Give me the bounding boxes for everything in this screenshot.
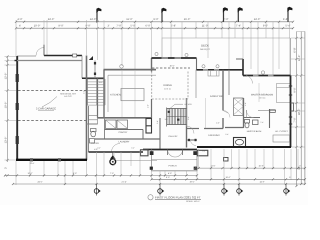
svg-text:4'-0": 4'-0" <box>168 172 172 175</box>
svg-text:PANTRY: PANTRY <box>119 131 128 134</box>
svg-text:9'-0": 9'-0" <box>263 25 268 28</box>
laundry machines <box>106 120 128 129</box>
powder fixtures: toilet and sink <box>90 129 97 144</box>
wall: y127.5 x225-243.5 <box>225 127 244 129</box>
svg-text:9'-0": 9'-0" <box>73 172 77 175</box>
interior grid extension lines through kitchen <box>122 70 135 117</box>
door arc: top-left entry door <box>17 45 44 57</box>
svg-text:FIRST FLOOR PLAN 2281 SQ FT: FIRST FLOOR PLAN 2281 SQ FT <box>155 195 201 199</box>
interior extension x205.5 <box>205 98 207 128</box>
shower bottom-left of bath <box>234 138 246 148</box>
svg-text:21'-4": 21'-4" <box>121 181 126 184</box>
svg-text:MASTER BEDROOM: MASTER BEDROOM <box>251 94 273 97</box>
svg-text:6'-0": 6'-0" <box>131 147 135 150</box>
dashed line: garage bay divider 1 <box>18 90 86 92</box>
scattered interior micro-annotations <box>83 81 265 153</box>
svg-text:16'-0": 16'-0" <box>184 18 191 21</box>
wall: bottom y147 x197-291 (dark) <box>197 146 291 148</box>
wall: y128.5 x186.5-223 (gap at 199-204) <box>187 128 224 130</box>
bottom extension lines <box>16 32 305 186</box>
wall: x160 y118-148.8 <box>159 118 161 149</box>
section flag at x=162 <box>161 8 166 22</box>
foyer front wall dim text <box>94 148 98 151</box>
wall: garage right x86.5 <box>86 56 88 161</box>
svg-text:KITCHEN: KITCHEN <box>110 94 121 97</box>
wall: closet divider x269.5 y109-128 <box>269 109 271 128</box>
svg-text:7'-0": 7'-0" <box>294 117 297 122</box>
svg-text:MASTER BATH: MASTER BATH <box>247 130 262 133</box>
garage door jamb marks on bottom wall <box>30 158 61 161</box>
wall: stub y59 x236-243 <box>236 58 243 60</box>
foyer closet dark walls x146-151.5 <box>146 119 152 134</box>
door mark triangle near x90 <box>89 56 93 60</box>
svg-text:7'-0": 7'-0" <box>116 25 121 28</box>
svg-text:6'-8": 6'-8" <box>283 18 288 21</box>
stair newel dark dots <box>168 111 180 121</box>
svg-text:24'-0": 24'-0" <box>48 18 55 21</box>
door arc: deck to master <box>246 76 253 84</box>
svg-text:16'-0": 16'-0" <box>169 65 174 68</box>
porch french door arcs <box>168 150 183 158</box>
grid bubble at x=96.5 <box>94 184 101 196</box>
wall: bath niche top y117.5 x243.5-260 <box>244 117 261 119</box>
svg-text:7'-0": 7'-0" <box>110 172 114 175</box>
wall: right exterior x290.5 y38-147 (dark below 75) <box>290 38 292 147</box>
extension lines right <box>291 32 305 148</box>
label: FAMILY RM <box>210 95 223 98</box>
label: PORCH <box>169 164 177 167</box>
small step below right wall <box>224 158 229 162</box>
svg-text:11'-0": 11'-0" <box>202 25 208 28</box>
grid bubble at x=239 <box>237 184 244 196</box>
wall: main horizontal y117.8 x97-151 <box>98 117 152 119</box>
label: FOYER <box>91 142 99 145</box>
dimension text: top row A <box>17 18 288 21</box>
svg-text:14'-0": 14'-0" <box>254 18 261 21</box>
section flag at x=238.3 <box>238 7 243 22</box>
svg-text:3'-6": 3'-6" <box>83 90 86 94</box>
svg-text:5'-4": 5'-4" <box>285 25 290 28</box>
extension lines from top dims down to building <box>16 20 290 75</box>
svg-text:6'-0": 6'-0" <box>145 25 150 28</box>
dimension line: left vertical column <box>6 55 8 176</box>
mudroom partition x95 with jamb nubs <box>94 61 96 79</box>
svg-text:13 X 11: 13 X 11 <box>164 87 170 90</box>
interior extension x259 <box>258 83 260 102</box>
closet shelves <box>273 135 290 142</box>
bottom dim row y179.3 (right mid) <box>150 176 306 180</box>
stair leader note UP 16R <box>171 103 193 108</box>
svg-text:19'-0": 19'-0" <box>225 176 230 179</box>
wall: x196 y70-98 (light) <box>195 70 197 98</box>
garage bottom dim text <box>30 162 35 165</box>
label: LAUNDRY <box>119 141 130 144</box>
svg-text:10'-0": 10'-0" <box>4 102 7 109</box>
svg-text:14'-0": 14'-0" <box>90 18 97 21</box>
wall: kitchen top y69.6 x103.5-156 <box>104 69 157 71</box>
grid bubble at x=160 <box>158 184 165 196</box>
closet walls x229-243 <box>229 70 243 116</box>
svg-text:15 X 14: 15 X 14 <box>259 96 266 99</box>
wall: family left x186.5 y98-147 <box>186 98 188 148</box>
wall: garage bottom (very dark) y159.8 <box>16 159 87 161</box>
svg-text:33'-4": 33'-4" <box>30 162 35 165</box>
leader line from circle marker <box>116 159 157 161</box>
grid bubble at x=286 <box>284 184 291 196</box>
svg-text:W.I. CLOSET: W.I. CLOSET <box>275 130 288 133</box>
svg-text:9'-0": 9'-0" <box>58 25 63 28</box>
wall: master top y75.5 x243-291 (dark) <box>243 75 291 77</box>
closet shelves under stairs <box>89 116 98 125</box>
section flag at x=223.5 <box>223 7 228 22</box>
svg-text:DECK: DECK <box>201 44 209 48</box>
svg-text:7'-0": 7'-0" <box>223 18 228 21</box>
wall: kitchen left x104 <box>103 70 105 118</box>
svg-text:12'-0": 12'-0" <box>27 172 32 175</box>
svg-text:3 CAR GARAGE: 3 CAR GARAGE <box>36 107 56 110</box>
mudroom bottom wall y78.3 <box>82 77 104 79</box>
svg-text:5'-8": 5'-8" <box>171 25 176 28</box>
wall: top-left bumpout top (dark) x44-82 y55.5 <box>44 55 82 57</box>
svg-text:4'-0": 4'-0" <box>17 18 22 21</box>
right outermost dim line x304.9 <box>304 32 306 185</box>
dimension text: top row B <box>19 25 291 28</box>
wall: stair hall x97.5 <box>97 78 99 118</box>
svg-text:14'-0": 14'-0" <box>298 55 301 62</box>
svg-text:2'-8": 2'-8" <box>99 81 103 84</box>
svg-text:PORCH: PORCH <box>169 164 177 167</box>
svg-text:19'-0": 19'-0" <box>189 181 194 184</box>
fireplace on family top wall <box>208 71 219 77</box>
label: PANTRY <box>119 131 128 134</box>
dimension line: top row A <box>15 21 294 23</box>
bottom dim row left y175.4 <box>4 172 198 177</box>
wall: kitchen right x151.5 (segments) <box>151 58 153 118</box>
mudroom left wall x82 <box>81 56 83 79</box>
svg-text:9'-0": 9'-0" <box>85 25 90 28</box>
svg-text:18'-0": 18'-0" <box>298 109 301 116</box>
svg-text:LAUNDRY: LAUNDRY <box>119 141 130 144</box>
porch corner posts <box>150 151 197 170</box>
wall: y110.5 x258-276 <box>258 110 276 112</box>
wall: garage left (dark) x17 <box>16 56 18 161</box>
door arc: into master bath hall <box>246 110 253 118</box>
svg-text:15'-8": 15'-8" <box>258 165 263 168</box>
svg-text:7'-0": 7'-0" <box>260 121 264 124</box>
extension lines left <box>5 57 17 176</box>
svg-text:5'-0": 5'-0" <box>156 120 159 124</box>
dimension text: left column (rotated) <box>4 73 7 169</box>
front door arc <box>112 144 121 153</box>
dimension line: right outer column <box>300 32 302 186</box>
svg-text:2'-8": 2'-8" <box>147 104 150 108</box>
bath fixtures: toilet and sink <box>245 110 276 128</box>
svg-text:11'-0": 11'-0" <box>126 18 132 21</box>
leader note above garage label <box>42 93 77 108</box>
dark circle marker A1 <box>110 152 116 165</box>
wall: laundry bottom y139 <box>95 138 160 140</box>
svg-text:4'-0": 4'-0" <box>244 102 247 106</box>
powder room walls below stairs <box>87 106 105 152</box>
left wall darker nubs <box>16 74 19 144</box>
svg-text:6'-8": 6'-8" <box>294 47 297 52</box>
label: UP 16R on stair <box>165 118 168 121</box>
svg-text:FAMILY RM: FAMILY RM <box>210 95 223 98</box>
door arcs on family right wall <box>223 111 230 118</box>
svg-text:7'-4": 7'-4" <box>236 25 241 28</box>
svg-text:11'-0": 11'-0" <box>211 165 216 168</box>
svg-text:A-5 TYP: A-5 TYP <box>64 95 72 98</box>
label: DINING <box>163 84 172 90</box>
label: KITCHEN <box>110 94 121 97</box>
svg-text:9'-0": 9'-0" <box>294 87 297 92</box>
window ticks on right wall <box>289 86 292 124</box>
wall: family right x223 with openings <box>222 70 224 129</box>
window square on bumpout wall <box>73 54 77 57</box>
wall: vertical x243.5 y98-128 <box>243 98 245 128</box>
wall line: garage top y60.5 <box>17 60 82 62</box>
kitchen island <box>121 89 144 101</box>
wall y140 x186.5-197 with jambs <box>187 139 198 141</box>
svg-text:DRESSING: DRESSING <box>208 134 220 137</box>
deck outline (thin) <box>162 38 290 75</box>
labels: MASTER BATH / W.I. CLOSET <box>247 130 262 133</box>
label: 3 CAR GARAGE <box>36 107 56 110</box>
svg-text:3'-4": 3'-4" <box>187 116 190 120</box>
title: drawing name <box>148 195 201 203</box>
window marker circle on kitchen top wall <box>120 65 124 69</box>
dimension line: right inner column <box>295 32 297 188</box>
vestibule block left of porch <box>141 150 149 156</box>
label: HALL <box>168 135 178 138</box>
svg-text:2'-6": 2'-6" <box>225 133 229 136</box>
svg-text:8'-0": 8'-0" <box>166 176 170 179</box>
stair well walls <box>167 98 187 127</box>
svg-text:4'-6": 4'-6" <box>216 121 220 124</box>
deck label <box>200 44 211 51</box>
tiny dim text in hall <box>216 121 220 124</box>
svg-text:GALLERY: GALLERY <box>168 135 178 138</box>
bottom dim row y184 (full) <box>12 181 306 186</box>
svg-text:DINING: DINING <box>163 84 172 87</box>
window circle on deck wall <box>155 52 188 56</box>
grid bubble at x=224 <box>222 184 229 196</box>
label: DRESSING <box>208 134 220 137</box>
svg-text:3'-0": 3'-0" <box>97 147 101 150</box>
wall: family top y69.8 x196.5-243 (dark) <box>197 69 244 71</box>
dashed line: garage bay divider 2 <box>18 120 86 122</box>
wall: step x196.5 y58-69.8 <box>196 58 198 70</box>
bed in master bedroom <box>277 84 291 103</box>
svg-text:240 SQ FT: 240 SQ FT <box>200 48 211 51</box>
bottom dim row right y168.1 <box>194 165 306 170</box>
svg-text:24'-0": 24'-0" <box>37 181 42 184</box>
wall: deck-side wall y58 x151.5-196.5 (dark hatched) <box>152 57 197 59</box>
wall: left stub at y60.5 <box>15 60 19 62</box>
section flag at x=288 <box>287 7 292 22</box>
wall block right of porch <box>197 150 208 156</box>
window circle on master top wall <box>261 71 264 74</box>
tiny dim text on that line <box>169 65 174 68</box>
label: MASTER BEDROOM <box>251 94 273 100</box>
bay bump on right wall <box>291 103 294 111</box>
stairs upper-left (horizontal treads) <box>88 79 106 105</box>
dimension line: top row B <box>15 27 294 29</box>
section flag at x=97 <box>96 8 101 22</box>
svg-text:13'-0": 13'-0" <box>4 137 7 144</box>
svg-text:14'-8": 14'-8" <box>259 181 264 184</box>
porch outline <box>152 150 198 171</box>
dimension text: right columns (rotated) <box>294 47 302 169</box>
kitchen counter outline <box>108 75 156 112</box>
svg-text:SCALE: 1/4"=1': SCALE: 1/4"=1' <box>186 200 200 203</box>
wall: bottom y149.5 x143-197 <box>143 149 197 151</box>
svg-text:12'-0": 12'-0" <box>4 73 7 80</box>
svg-text:FOYER: FOYER <box>91 142 99 145</box>
door arc near family left wall <box>187 126 195 134</box>
wall: vertical x243 y59-75.5 (dark) <box>242 59 244 76</box>
stairs main (vertical treads) <box>167 109 187 125</box>
front wall segment x88-143 y152 (dark) <box>89 151 144 153</box>
svg-text:8'-0": 8'-0" <box>202 150 206 153</box>
svg-text:9'-0": 9'-0" <box>153 18 158 21</box>
dashed dining boundary <box>152 72 188 100</box>
wall: x143 y129.5-139 <box>142 130 144 140</box>
arc below wall y140 <box>191 140 197 146</box>
svg-text:10'-0": 10'-0" <box>34 25 41 28</box>
svg-text:UP 16 R: UP 16 R <box>184 103 192 106</box>
window circles on family top wall <box>202 65 219 68</box>
dashed line: kitchen/dining top y68 x152-190 <box>152 67 190 69</box>
wall: pantry bottom y129.5 <box>105 129 144 131</box>
